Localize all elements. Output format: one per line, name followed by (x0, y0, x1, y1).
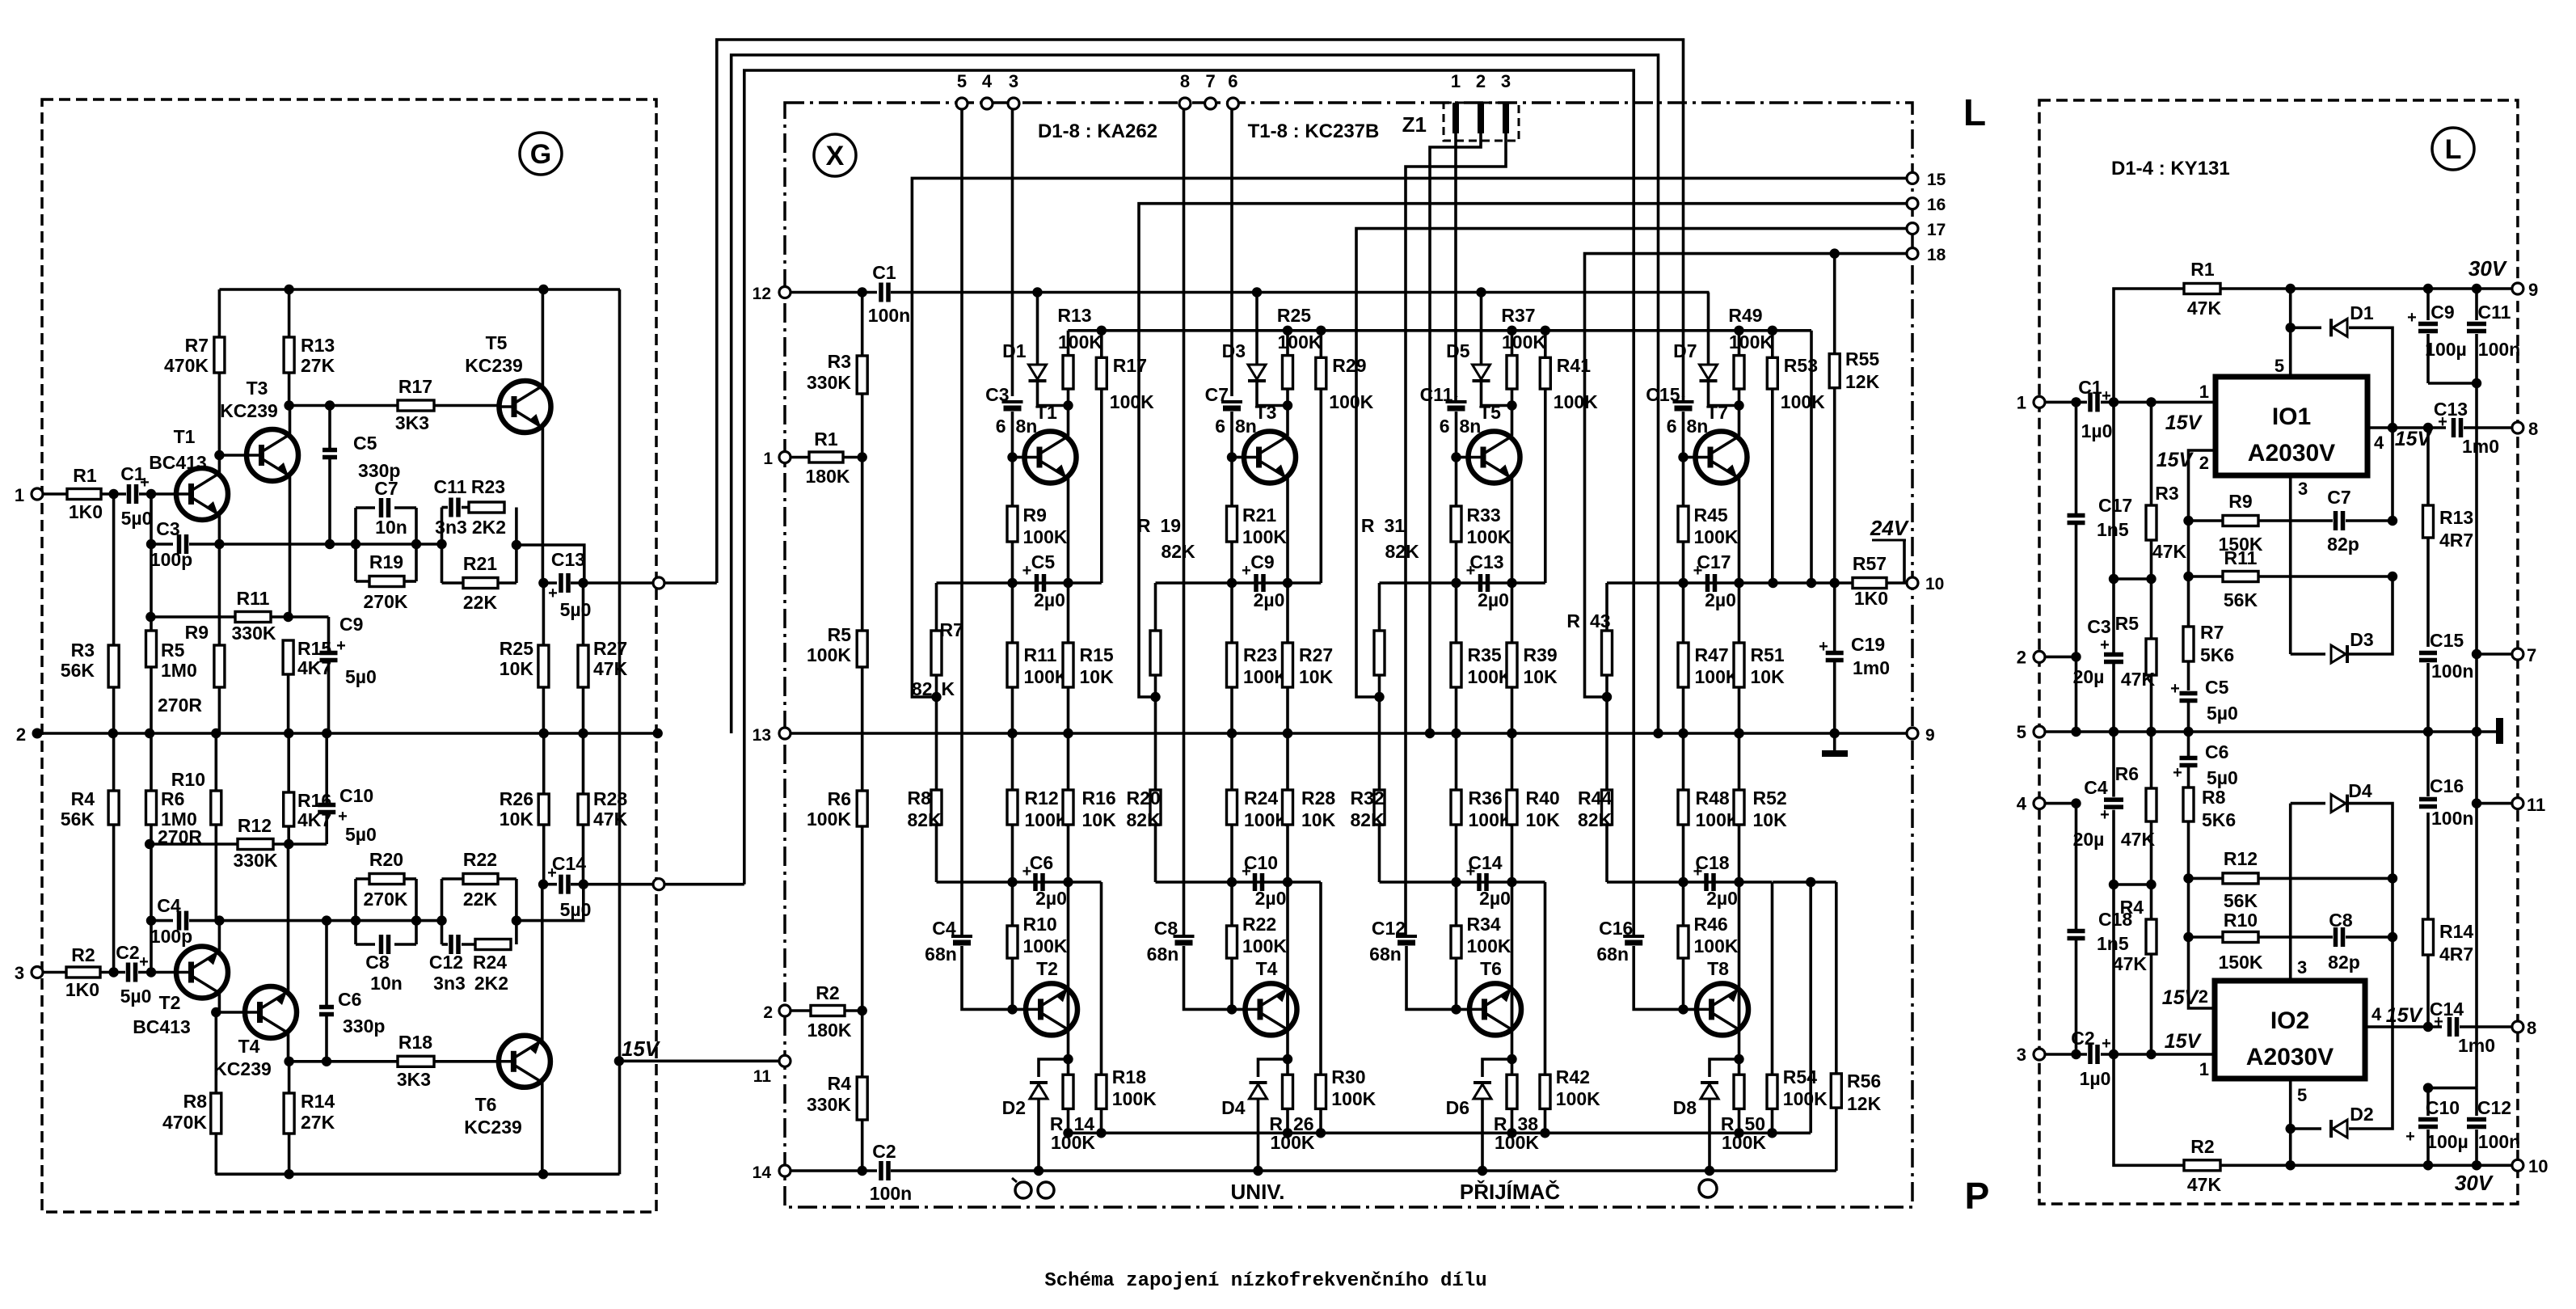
transistor T5 KC237B (1469, 432, 1520, 483)
T7 collector wire (1738, 406, 1741, 437)
row 2u0 top strip 3 (1380, 581, 1545, 585)
resistor R48 100K (1682, 733, 1685, 790)
svg-text:R34: R34 (1467, 914, 1501, 935)
svg-text:R5: R5 (2115, 613, 2140, 634)
R22/C12 network rails (441, 879, 444, 944)
svg-text:+: + (336, 637, 346, 655)
svg-text:+: + (547, 864, 557, 882)
svg-text:R1: R1 (814, 429, 838, 450)
svg-text:10n: 10n (375, 517, 407, 538)
capacitor C16 100n (2419, 797, 2437, 802)
capacitor C11 6.8n (1455, 396, 1458, 397)
diode D6 KA262 (1482, 1059, 1512, 1077)
svg-text:3n3: 3n3 (433, 973, 466, 994)
svg-text:100K: 100K (1058, 331, 1102, 353)
svg-text:82: 82 (912, 678, 933, 699)
svg-text:100K: 100K (1554, 391, 1598, 412)
svg-text:KC239: KC239 (220, 400, 278, 421)
capacitor C4 68n (960, 109, 963, 935)
resistor R27 47K (582, 583, 585, 645)
svg-text:R46: R46 (1694, 914, 1728, 935)
capacitor C9 100u (2426, 289, 2430, 320)
svg-text:BC413: BC413 (133, 1016, 191, 1037)
svg-text:D4: D4 (2348, 780, 2372, 801)
svg-text:47K: 47K (2187, 298, 2222, 319)
svg-text:2µ0: 2µ0 (1254, 589, 1285, 610)
resistor R37 100K (1511, 331, 1514, 356)
svg-text:82p: 82p (2328, 952, 2360, 973)
wire R12 to T4 emitter col (273, 842, 327, 846)
svg-text:R55: R55 (1845, 348, 1879, 369)
ground symbol (L) (2496, 718, 2503, 744)
svg-text:R20: R20 (1127, 788, 1161, 809)
base wire T4 (1232, 1008, 1246, 1011)
svg-text:8n: 8n (1016, 416, 1038, 437)
svg-text:R32: R32 (1351, 788, 1385, 809)
svg-text:3: 3 (15, 963, 24, 983)
wire R17 to T5 base (434, 404, 499, 407)
row 2u0 bottom strip 2 (1156, 880, 1322, 884)
resistor R36 100K (1455, 733, 1458, 790)
svg-text:270R: 270R (158, 826, 202, 847)
svg-text:R3: R3 (2155, 483, 2178, 504)
svg-text:470K: 470K (164, 355, 209, 376)
transistor T2 BC413 (176, 947, 228, 999)
capacitor C4 20u (2104, 797, 2123, 802)
svg-text:R23: R23 (471, 476, 505, 497)
svg-text:C15: C15 (1646, 384, 1680, 405)
wire C2 to T2 base (138, 971, 176, 974)
svg-text:10K: 10K (1526, 809, 1561, 830)
resistor R25 10K (542, 583, 546, 645)
R13 feedback bus top (1068, 329, 1811, 332)
resistor R29 100K (1316, 326, 1326, 336)
resistor R34 100K (1455, 882, 1458, 926)
T5 collector wire (542, 289, 545, 386)
svg-text:2: 2 (16, 724, 26, 745)
svg-text:R10: R10 (171, 769, 205, 790)
svg-text:15V: 15V (2157, 449, 2194, 471)
resistor R17 3K3 (398, 400, 434, 411)
svg-text:+: + (2102, 1035, 2111, 1053)
base wire T8 (1684, 1008, 1697, 1011)
wire G bus to strip4 ground column (731, 55, 1659, 733)
resistor R25 100K (1286, 331, 1289, 356)
transistor T5 KC239 (500, 381, 551, 433)
resistor R10 100K (1011, 882, 1014, 926)
R14 feedback bus bottom (1068, 1132, 1811, 1135)
pin 8 (L) (2512, 422, 2523, 433)
R12 row wire (150, 842, 238, 846)
svg-text:1: 1 (15, 485, 24, 505)
svg-text:12K: 12K (1845, 371, 1880, 392)
svg-text:3: 3 (2298, 479, 2308, 499)
svg-text:100K: 100K (1783, 1088, 1828, 1109)
svg-text:KC239: KC239 (464, 1117, 522, 1138)
capacitor C8 68n (1183, 109, 1186, 935)
svg-text:T8: T8 (1707, 958, 1729, 979)
svg-text:1: 1 (1451, 71, 1461, 91)
T2 collector wire (1067, 988, 1070, 1059)
svg-text:T2: T2 (1036, 958, 1058, 979)
capacitor C1 1u0 (L) (2088, 392, 2093, 412)
svg-text:5µ0: 5µ0 (120, 986, 152, 1007)
svg-text:2µ0: 2µ0 (1255, 888, 1287, 909)
T6 emitter wire (541, 885, 544, 1041)
svg-text:D3: D3 (2350, 629, 2373, 650)
svg-text:R7: R7 (185, 335, 209, 356)
diode D7 KA262 (1707, 293, 1710, 365)
svg-text:L: L (1963, 91, 1986, 133)
svg-text:100K: 100K (1694, 526, 1739, 547)
svg-text:+: + (1022, 562, 1032, 580)
transistor T2 KC237B (1026, 983, 1077, 1035)
block label L circle (2432, 128, 2474, 170)
svg-text:C14: C14 (1468, 852, 1502, 873)
wire C16 up to ground (2426, 732, 2430, 796)
resistor R3 56K (112, 494, 116, 645)
pin 2 (L) (2034, 651, 2045, 662)
Z1 pin 2 (1478, 103, 1484, 133)
capacitor C11 100n (2475, 289, 2478, 320)
svg-text:82K: 82K (1578, 809, 1613, 830)
resistor R40 10K (1511, 733, 1514, 790)
svg-text:1K0: 1K0 (65, 979, 99, 1000)
resistor R18 100K (1100, 882, 1103, 1075)
svg-text:100K: 100K (1467, 935, 1511, 956)
svg-text:R: R (1566, 610, 1580, 631)
svg-text:KC239: KC239 (213, 1058, 272, 1079)
svg-text:R30: R30 (1331, 1066, 1365, 1087)
resistor R52 10K (1738, 733, 1741, 790)
svg-text:C17: C17 (2098, 495, 2132, 516)
svg-text:100K: 100K (1781, 391, 1825, 412)
svg-text:T1-8 : KC237B: T1-8 : KC237B (1248, 120, 1380, 142)
svg-text:4: 4 (982, 71, 993, 91)
ground bus (L) (2045, 730, 2498, 733)
resistor R14 4R7 (2423, 1022, 2433, 1032)
resistor R43 82K (1605, 583, 1608, 631)
pin 11 (L) (2512, 798, 2523, 809)
svg-text:24V: 24V (1870, 516, 1910, 540)
capacitor C7 82p (2334, 511, 2338, 530)
svg-text:100n: 100n (868, 305, 910, 326)
capacitor C12 68n (1396, 935, 1417, 938)
svg-text:C2: C2 (2071, 1028, 2094, 1049)
svg-text:R9: R9 (2228, 491, 2252, 512)
svg-text:56K: 56K (2224, 589, 2258, 610)
svg-text:C5: C5 (2205, 677, 2229, 698)
input line 18 (1585, 254, 1913, 697)
svg-text:C14: C14 (552, 853, 586, 874)
svg-text:+: + (2405, 1128, 2415, 1146)
svg-text:R21: R21 (1242, 505, 1276, 526)
svg-text:D4: D4 (1221, 1097, 1246, 1118)
svg-text:R11: R11 (1024, 644, 1057, 665)
svg-text:10: 10 (2528, 1156, 2548, 1176)
base wire T7 (1684, 456, 1696, 459)
svg-text:D1-8 : KA262: D1-8 : KA262 (1038, 120, 1157, 142)
T2 emitter wire (218, 921, 221, 952)
C14 row wire (543, 883, 557, 886)
wire C7 to base (1230, 412, 1233, 458)
svg-text:R37: R37 (1501, 305, 1535, 326)
svg-text:G: G (530, 139, 551, 170)
svg-text:10n: 10n (370, 973, 403, 994)
svg-text:2: 2 (1476, 71, 1486, 91)
wire G lower output to strip4 bottom input (744, 70, 1634, 935)
T6 collector wire (541, 1083, 544, 1174)
capacitor C14 2u0 (1477, 873, 1482, 891)
svg-text:D2: D2 (1002, 1097, 1026, 1118)
svg-text:C12: C12 (2477, 1097, 2511, 1118)
svg-text:11: 11 (2527, 795, 2545, 815)
svg-text:1m0: 1m0 (2462, 436, 2499, 457)
svg-text:C8: C8 (365, 952, 390, 973)
svg-text:R5: R5 (161, 640, 185, 661)
svg-text:C15: C15 (2430, 630, 2464, 651)
svg-text:R9: R9 (185, 622, 209, 643)
wire C13 to pin 8 (2464, 426, 2518, 429)
svg-text:R25: R25 (500, 638, 533, 659)
pin 3 (32, 967, 43, 978)
resistor R12 330K (238, 839, 273, 850)
svg-text:8n: 8n (1460, 416, 1482, 437)
svg-text:100K: 100K (807, 644, 851, 665)
svg-text:5K6: 5K6 (2200, 644, 2234, 665)
svg-text:+: + (140, 474, 150, 492)
svg-text:R16: R16 (297, 790, 331, 811)
pin 3 top (1008, 98, 1019, 109)
pin 7 (L) (2512, 648, 2523, 660)
svg-text:T3: T3 (247, 378, 268, 399)
C13 row wire (543, 581, 557, 585)
svg-text:100p: 100p (150, 926, 192, 947)
resistor R3 47K (L) (2150, 402, 2153, 505)
jog wire R6 R4 (2114, 883, 2152, 886)
svg-text:R13: R13 (301, 335, 335, 356)
svg-text:R7: R7 (2200, 622, 2224, 643)
svg-text:+: + (1819, 638, 1828, 656)
resistor R5 47K (L) (2146, 639, 2157, 675)
svg-text:47K: 47K (2187, 1174, 2222, 1195)
svg-text:100K: 100K (1502, 331, 1546, 353)
microphone symbol (1699, 1180, 1717, 1197)
svg-text:13: 13 (753, 726, 771, 745)
resistor R15 4K7 (283, 640, 293, 674)
svg-text:150K: 150K (2219, 952, 2263, 973)
resistor R41 100K (1541, 326, 1550, 336)
svg-text:C16: C16 (2430, 775, 2464, 796)
svg-text:27K: 27K (301, 1112, 335, 1133)
transistor T1 BC413 (176, 468, 228, 520)
pin 10 (1907, 577, 1918, 589)
svg-text:R48: R48 (1696, 788, 1730, 809)
svg-text:2K2: 2K2 (472, 517, 506, 538)
capacitor C8 10n (356, 943, 375, 946)
wire R43 to R44 (1605, 697, 1608, 790)
svg-text:56K: 56K (61, 660, 95, 681)
svg-text:R16: R16 (1082, 788, 1116, 809)
svg-text:+: + (2100, 806, 2110, 824)
row 2u0 top strip 1 (937, 581, 1102, 585)
svg-text:C6: C6 (2205, 741, 2228, 762)
wire R19 to R20 (1154, 697, 1157, 790)
T3 collector wire (1286, 406, 1289, 437)
capacitor C14 1m0 (2447, 1017, 2452, 1037)
resistor R56 12K (1835, 882, 1838, 1074)
svg-text:180K: 180K (806, 466, 850, 487)
resistor R57 1K0 (1853, 578, 1887, 589)
C10 C12 join wire (2428, 1087, 2477, 1090)
svg-text:A2030V: A2030V (2246, 1044, 2334, 1070)
svg-text:68n: 68n (1369, 944, 1402, 965)
svg-text:1K0: 1K0 (69, 501, 103, 522)
svg-text:330K: 330K (232, 623, 276, 644)
svg-text:K: K (942, 678, 955, 699)
svg-text:D1: D1 (1002, 340, 1027, 361)
svg-text:C19: C19 (1851, 634, 1885, 655)
svg-text:5µ0: 5µ0 (2207, 767, 2238, 788)
svg-text:100µ: 100µ (2425, 339, 2467, 360)
svg-text:R12: R12 (2224, 848, 2258, 869)
svg-text:R11: R11 (2224, 547, 2258, 568)
wire T2 collector to T4 base (216, 1011, 245, 1014)
svg-text:330K: 330K (234, 850, 278, 871)
svg-text:R56: R56 (1847, 1070, 1881, 1092)
wire C12 to base (1406, 946, 1457, 1009)
svg-text:C10: C10 (339, 785, 373, 806)
pin 14 (779, 1165, 791, 1176)
resistor R13 4R7 (2423, 423, 2433, 433)
resistor R19 82K (1154, 583, 1157, 631)
svg-text:4: 4 (2017, 794, 2027, 814)
T5 emitter wire (1511, 478, 1514, 583)
capacitor C3 100p (177, 534, 182, 554)
svg-text:8n: 8n (1235, 416, 1257, 437)
svg-text:5: 5 (2297, 1085, 2307, 1105)
svg-text:4K7: 4K7 (297, 657, 331, 678)
capacitor C12 3n3 (442, 943, 449, 946)
resistor R12 56K (L) (2189, 877, 2224, 880)
svg-text:R49: R49 (1728, 305, 1762, 326)
svg-text:R1: R1 (2190, 259, 2215, 280)
svg-text:C4: C4 (932, 918, 956, 939)
svg-text:82p: 82p (2327, 534, 2359, 555)
svg-text:X: X (826, 141, 845, 171)
pin 9 (L) (2512, 283, 2523, 294)
svg-text:1K0: 1K0 (1854, 588, 1888, 609)
wire bottom row to R56 (1773, 880, 1836, 884)
svg-text:KC239: KC239 (465, 355, 523, 376)
IC IO2 A2030V (2215, 981, 2365, 1079)
resistor R27 10K (1286, 583, 1289, 643)
resistor R51 10K (1738, 583, 1741, 643)
svg-text:T5: T5 (486, 332, 508, 353)
svg-text:R22: R22 (463, 849, 497, 870)
svg-text:C8: C8 (1154, 918, 1178, 939)
IO2 pin2 wire (2189, 937, 2216, 1008)
resistor R42 100K (1544, 882, 1547, 1075)
wire pin1 to R1 (43, 492, 67, 496)
wire R31 to R32 (1378, 697, 1381, 790)
svg-text:R8: R8 (908, 788, 932, 809)
wire C4 column lower (2112, 885, 2115, 1054)
wire T1 collector to T3 base (219, 454, 247, 457)
T8 collector wire (1738, 988, 1741, 1059)
svg-text:6: 6 (996, 416, 1006, 437)
T6 emitter wire (1511, 882, 1514, 1030)
svg-text:82K: 82K (1385, 541, 1420, 562)
wire R14 bus to bottom row corner (1809, 882, 1812, 1133)
resistor R45 100K (1682, 458, 1685, 507)
svg-text:10K: 10K (1080, 666, 1115, 687)
svg-text:R27: R27 (1299, 644, 1333, 665)
svg-text:12: 12 (753, 285, 771, 303)
svg-text:C1: C1 (872, 262, 896, 283)
pin 13 (779, 728, 791, 739)
row 2u0 bottom strip 3 (1380, 880, 1545, 884)
svg-text:R25: R25 (1277, 305, 1311, 326)
block G dashed border (42, 99, 656, 1212)
capacitor C15 6.8n (1682, 396, 1685, 397)
input line 16 (1139, 204, 1912, 697)
wire input column C3 (1011, 109, 1014, 396)
T4 emitter wire (287, 844, 290, 991)
svg-text:R1: R1 (73, 465, 97, 486)
G top rail (219, 288, 620, 291)
connector Z1 dashed box (1444, 103, 1519, 141)
svg-text:R14: R14 (301, 1091, 335, 1112)
resistor R55 12K (1830, 248, 1840, 258)
svg-text:1: 1 (2017, 392, 2026, 412)
svg-text:5µ0: 5µ0 (345, 666, 377, 687)
svg-text:R52: R52 (1753, 788, 1787, 809)
svg-text:31: 31 (1385, 515, 1406, 536)
svg-text:R47: R47 (1695, 644, 1729, 665)
transistor T7 KC237B (1696, 432, 1748, 483)
svg-text:11: 11 (753, 1067, 772, 1086)
svg-text:R2: R2 (816, 982, 839, 1003)
svg-text:10K: 10K (1524, 666, 1558, 687)
svg-text:20µ: 20µ (2073, 666, 2105, 687)
svg-text:10K: 10K (1082, 809, 1117, 830)
wire C4 to network (189, 919, 356, 923)
svg-text:T6: T6 (475, 1094, 497, 1115)
svg-text:R51: R51 (1751, 644, 1785, 665)
resistor R11 100K (1011, 583, 1014, 643)
svg-text:PŘIJÍMAČ: PŘIJÍMAČ (1460, 1180, 1560, 1204)
pin 1 (X) (779, 452, 791, 463)
wire C1 to T1 base (139, 492, 176, 496)
IO2 pin5 wire (2289, 1079, 2292, 1129)
svg-text:3: 3 (1501, 71, 1511, 91)
resistor R24 100K (1230, 733, 1233, 790)
svg-text:Z1: Z1 (1402, 112, 1427, 137)
svg-text:15V: 15V (622, 1037, 661, 1061)
resistor R11 330K (235, 612, 271, 623)
resistor R15 10K (1067, 583, 1070, 643)
svg-text:2µ0: 2µ0 (1705, 589, 1736, 610)
wire C15 to base (1682, 412, 1685, 458)
resistor R23 2K2 (469, 502, 504, 513)
svg-text:47K: 47K (593, 809, 628, 830)
svg-text:Schéma zapojení nízkofrekvenčn: Schéma zapojení nízkofrekvenčního dílu (1044, 1270, 1486, 1292)
resistor R6 100K (X) (861, 733, 864, 791)
pin 17 (1907, 223, 1918, 234)
svg-text:T2: T2 (159, 992, 181, 1013)
svg-text:4K7: 4K7 (297, 809, 331, 830)
